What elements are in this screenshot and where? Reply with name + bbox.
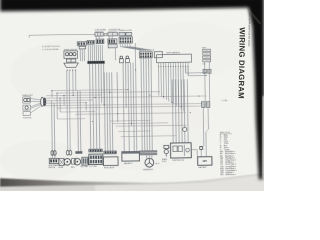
tiny link connector xyxy=(104,34,107,36)
small coupler squares xyxy=(203,69,206,73)
svg-text:Brown: Brown xyxy=(224,147,229,149)
comp9 spark circle xyxy=(183,127,187,131)
comp5 connector bar xyxy=(104,151,117,154)
switch box C2 xyxy=(126,32,132,35)
svg-text:W/B: W/B xyxy=(220,158,223,160)
wire harness box xyxy=(156,54,191,62)
connector block C3 xyxy=(119,37,132,43)
right coupler 1 xyxy=(203,49,211,52)
svg-text:REG.: REG. xyxy=(71,167,75,169)
connector row box 2 xyxy=(96,39,104,44)
battery box xyxy=(198,157,212,166)
wires right stack down xyxy=(204,62,207,102)
diagonal wires to ignition switch xyxy=(120,43,140,52)
wires mid verticals 1 xyxy=(123,63,124,152)
svg-text:WIRING DIAGRAM: WIRING DIAGRAM xyxy=(237,27,247,99)
speedometer box xyxy=(64,51,78,59)
comp6 magneto box xyxy=(122,152,140,162)
svg-text:Blue: Blue xyxy=(224,145,227,147)
svg-text:Red: Red xyxy=(224,139,227,141)
ignition switch body xyxy=(154,52,162,58)
svg-text:BATTERY: BATTERY xyxy=(198,166,207,169)
switch box C1 xyxy=(119,32,125,35)
svg-text:A : EXCEPT FOR E-03: A : EXCEPT FOR E-03 xyxy=(42,45,59,48)
switch box A2 xyxy=(79,46,85,49)
svg-text:POSITION: POSITION xyxy=(23,117,32,119)
indicator lamp 1 xyxy=(65,53,68,56)
comp9 ignition coil box xyxy=(170,143,191,158)
svg-text:12V: 12V xyxy=(202,159,207,163)
black scanner band top and right xyxy=(0,0,264,180)
right hatched coupler B xyxy=(206,102,210,108)
indicator lamp 3 xyxy=(73,52,76,55)
scanner bed area below page bottom edge xyxy=(0,173,264,191)
page corner diagonal highlight xyxy=(248,9,261,24)
comp7 generator symbol xyxy=(145,158,154,167)
svg-text:REGULATOR: REGULATOR xyxy=(104,166,115,169)
svg-text:Black: Black xyxy=(224,134,228,136)
right hatched coupler A xyxy=(201,102,205,108)
right coupler 3 xyxy=(203,56,211,59)
wiring diagram drawing xyxy=(22,26,238,179)
wire drop switch A xyxy=(79,49,81,61)
page bottom edge shadow xyxy=(0,173,264,187)
svg-text:IGNITION COIL: IGNITION COIL xyxy=(172,160,184,162)
gauge symbol 2 xyxy=(74,158,81,165)
switch box B2 xyxy=(108,32,117,36)
light sliver right of black stripe xyxy=(263,96,265,178)
bottom-left corner gray xyxy=(0,184,95,191)
cluster cell box xyxy=(82,157,89,165)
wire drops B1 B2 xyxy=(95,36,97,39)
wires mid verticals 3 xyxy=(104,72,105,151)
ignition switch connector xyxy=(139,52,152,58)
headlight box xyxy=(23,97,30,103)
right coupler 2 xyxy=(203,52,211,55)
wires harness pins down xyxy=(158,67,160,95)
svg-text:MAGNETO: MAGNETO xyxy=(124,162,133,165)
paper page background xyxy=(0,0,264,191)
svg-text:SWITCH: SWITCH xyxy=(49,167,56,169)
harness wires turning right xyxy=(186,67,207,73)
right sub box xyxy=(108,44,117,48)
svg-text:G/Y: G/Y xyxy=(220,164,223,166)
svg-text:DIMMER: DIMMER xyxy=(119,30,127,32)
connector row box 1 xyxy=(87,40,94,44)
svg-text:B: B xyxy=(220,135,221,137)
small box between gauges xyxy=(72,158,76,164)
svg-text:Lg/B: Lg/B xyxy=(220,170,223,172)
fuse holder xyxy=(200,146,203,149)
switch box B1 xyxy=(95,33,103,37)
speedometer pin dots xyxy=(67,70,68,71)
svg-text:B : FOR E-03 MODEL: B : FOR E-03 MODEL xyxy=(42,49,59,51)
svg-text:Green: Green xyxy=(224,141,229,143)
wire battery feed xyxy=(202,107,205,146)
paper mottling xyxy=(0,22,245,180)
coil to battery link xyxy=(191,149,197,151)
right coupler 4 xyxy=(203,59,211,62)
junction dots xyxy=(55,92,58,95)
headlight wires to coupler xyxy=(30,98,41,100)
svg-text:FUSE: FUSE xyxy=(202,47,206,49)
front brake switch connector xyxy=(49,158,59,163)
connector row box 3 xyxy=(108,39,117,44)
multi-pin connector bar xyxy=(87,61,104,64)
wire drops switch row xyxy=(87,45,89,61)
wire bundle speedo down xyxy=(67,71,68,151)
comp5 box xyxy=(103,157,118,166)
wire harness pin stubs xyxy=(157,63,159,67)
city light box xyxy=(23,112,30,116)
relay 2 xyxy=(126,56,129,59)
svg-text:R/B: R/B xyxy=(220,162,223,164)
horizontal routing bus xyxy=(52,90,128,91)
label underlines xyxy=(95,30,104,32)
svg-text:Orange: Orange xyxy=(224,149,229,151)
wire pair side stand xyxy=(51,101,54,159)
left mesh risers xyxy=(51,91,53,97)
horn cluster box left xyxy=(59,158,64,165)
svg-text:C.D.I UNIT: C.D.I UNIT xyxy=(89,166,97,168)
wire color legend xyxy=(220,132,238,177)
switch box A1 xyxy=(77,42,86,46)
position light box xyxy=(23,105,30,110)
spark plug cap xyxy=(164,145,169,148)
relay 1 xyxy=(120,56,123,59)
speedometer sub-connector xyxy=(66,59,76,62)
wire pair neutral xyxy=(77,91,80,151)
wires ignition down xyxy=(141,58,142,151)
horn symbol xyxy=(64,158,71,165)
comp4 connector block xyxy=(89,154,103,165)
indicator lamp 2 xyxy=(69,53,72,56)
comp7 wires to symbol xyxy=(146,155,148,159)
speedometer boot trapezoid xyxy=(64,63,79,68)
wires coil area xyxy=(171,79,174,143)
wire bundle under connector bar xyxy=(90,64,91,149)
svg-text:HORN: HORN xyxy=(127,30,133,32)
bullet connectors on wires xyxy=(51,151,54,156)
comp7 connector strips xyxy=(139,151,156,153)
svg-text:TURN SIGNAL: TURN SIGNAL xyxy=(95,28,107,31)
headlight coupler xyxy=(41,97,44,106)
comp4 connector bar xyxy=(89,149,103,152)
svg-text:B/Y: B/Y xyxy=(220,153,223,155)
wires mid verticals 2 xyxy=(135,43,137,152)
long wire to left brake switch xyxy=(29,33,95,36)
